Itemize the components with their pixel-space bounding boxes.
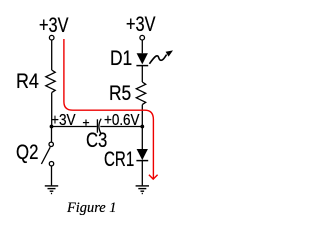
- ground (below Q2): [45, 186, 58, 194]
- node +0.6V label: [104, 113, 140, 129]
- diode CR1 label: [104, 149, 134, 170]
- wire R5 top to D1 cathode: [141, 66, 143, 82]
- wire left junction down to switch: [51, 127, 53, 143]
- wire right junction down to CR1: [141, 127, 143, 150]
- caption Figure 1: [67, 201, 116, 216]
- junction dot (left, +3V node): [50, 125, 54, 129]
- capacitor C3 label: [86, 130, 107, 151]
- LED D1 label: [110, 48, 132, 69]
- resistor R5 label: [109, 83, 131, 104]
- red current path wire: [64, 39, 158, 179]
- net +3V label (top-right): [126, 14, 155, 35]
- net +3V label (top-left): [39, 15, 68, 36]
- LED D1 triangle: [137, 53, 148, 64]
- red arrowhead chevron: [149, 175, 158, 179]
- resistor R4 label: [16, 71, 39, 92]
- wire right junction up to R5: [141, 105, 143, 127]
- junction dot (right, +0.6V node): [140, 125, 144, 129]
- switch Q2 lever: [41, 147, 50, 164]
- resistor R4: [46, 70, 55, 93]
- LED D1 cathode bar: [136, 65, 148, 67]
- LED D1 light emission wavy arrow: [149, 55, 166, 64]
- terminal circle +3V top-right: [140, 35, 145, 40]
- terminal circle +3V top-left: [49, 35, 54, 40]
- diode CR1 cathode bar: [136, 160, 148, 162]
- wire switch to ground: [51, 166, 53, 185]
- wire cap to right junction: [100, 126, 142, 128]
- transistor-switch Q2 label: [16, 142, 38, 163]
- wire D1 anode up to terminal: [141, 40, 143, 53]
- capacitor C3 polarity plus sign: [83, 120, 89, 126]
- wire +3V to R4 top: [51, 40, 53, 70]
- capacitor C3 left plate: [96, 119, 98, 132]
- wire horizontal node (left junction to cap): [52, 126, 97, 128]
- diode CR1 triangle: [137, 149, 148, 160]
- wire CR1 to ground: [141, 161, 143, 185]
- resistor R5: [136, 82, 145, 105]
- switch Q2 bottom terminal: [49, 162, 53, 166]
- ground (below CR1): [136, 186, 149, 194]
- switch Q2 top terminal: [49, 142, 53, 146]
- node +3V label (on wire, mid-left): [51, 113, 76, 129]
- capacitor C3 right curved plate: [99, 119, 101, 134]
- wire R4 bottom to left junction: [51, 93, 53, 127]
